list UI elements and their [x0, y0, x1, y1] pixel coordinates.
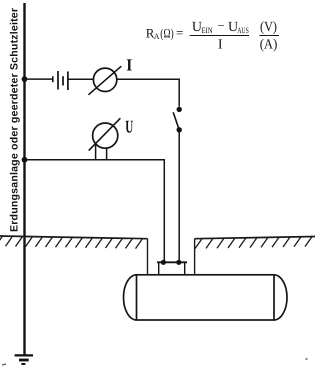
wire: voltmeter branch horizontal and down to tank [25, 160, 165, 262]
ground surface line left with hatching [0, 236, 148, 275]
node: junction of current branch on conductor [22, 76, 28, 82]
hatching right of pit [195, 237, 312, 249]
ground: earth symbol at bottom of conductor [15, 355, 33, 364]
wire: battery to ammeter [68, 78, 94, 80]
ammeter M1 (circle with slash) [88, 66, 121, 95]
tank: buried cylindrical tank [124, 275, 288, 320]
svg-text:AUS: AUS [237, 26, 249, 35]
node: left connection dot on busbar [161, 260, 166, 265]
svg-text:U: U [125, 117, 133, 137]
wire: ammeter to switch branch [117, 79, 179, 106]
switch S1 (open knife switch) [173, 107, 182, 133]
svg-text:I: I [218, 38, 223, 53]
node: junction of voltage branch on conductor [22, 157, 28, 163]
stray scan mark bottom left [2, 364, 6, 365]
svg-text:I: I [126, 56, 132, 75]
formula: RA(Ohm) = (U_EIN - U_AUS)/I (V)/(A) [146, 18, 279, 53]
svg-text:EIN: EIN [201, 26, 212, 35]
svg-text:−: − [217, 18, 224, 33]
wire: switch down to tank busbar [178, 130, 180, 262]
svg-text:(V): (V) [260, 20, 277, 35]
wire: busbar right leg to tank [184, 262, 186, 275]
svg-text:(Ω): (Ω) [160, 26, 173, 41]
voltmeter M2 (circle with slash) [89, 118, 121, 150]
hatching left of pit [0, 236, 143, 249]
busbar: tank earthing connection bar [157, 261, 187, 263]
svg-text:A: A [154, 32, 160, 41]
battery B1 (two cells) [53, 71, 68, 90]
wire: busbar left leg to tank [158, 262, 160, 275]
svg-text:Erdungsanlage oder geerdeter S: Erdungsanlage oder geerdeter Schutzleite… [9, 8, 21, 232]
wire: voltmeter terminal stubs [95, 144, 97, 160]
wire: earth electrode vertical conductor [23, 3, 25, 355]
stray scan speck bottom right [305, 358, 307, 360]
ground surface line right with hatching [195, 237, 315, 276]
node: right connection dot on busbar [176, 260, 181, 265]
svg-text:=: = [176, 25, 183, 40]
wire: conductor to battery [25, 78, 53, 80]
svg-text:(A): (A) [260, 38, 278, 53]
